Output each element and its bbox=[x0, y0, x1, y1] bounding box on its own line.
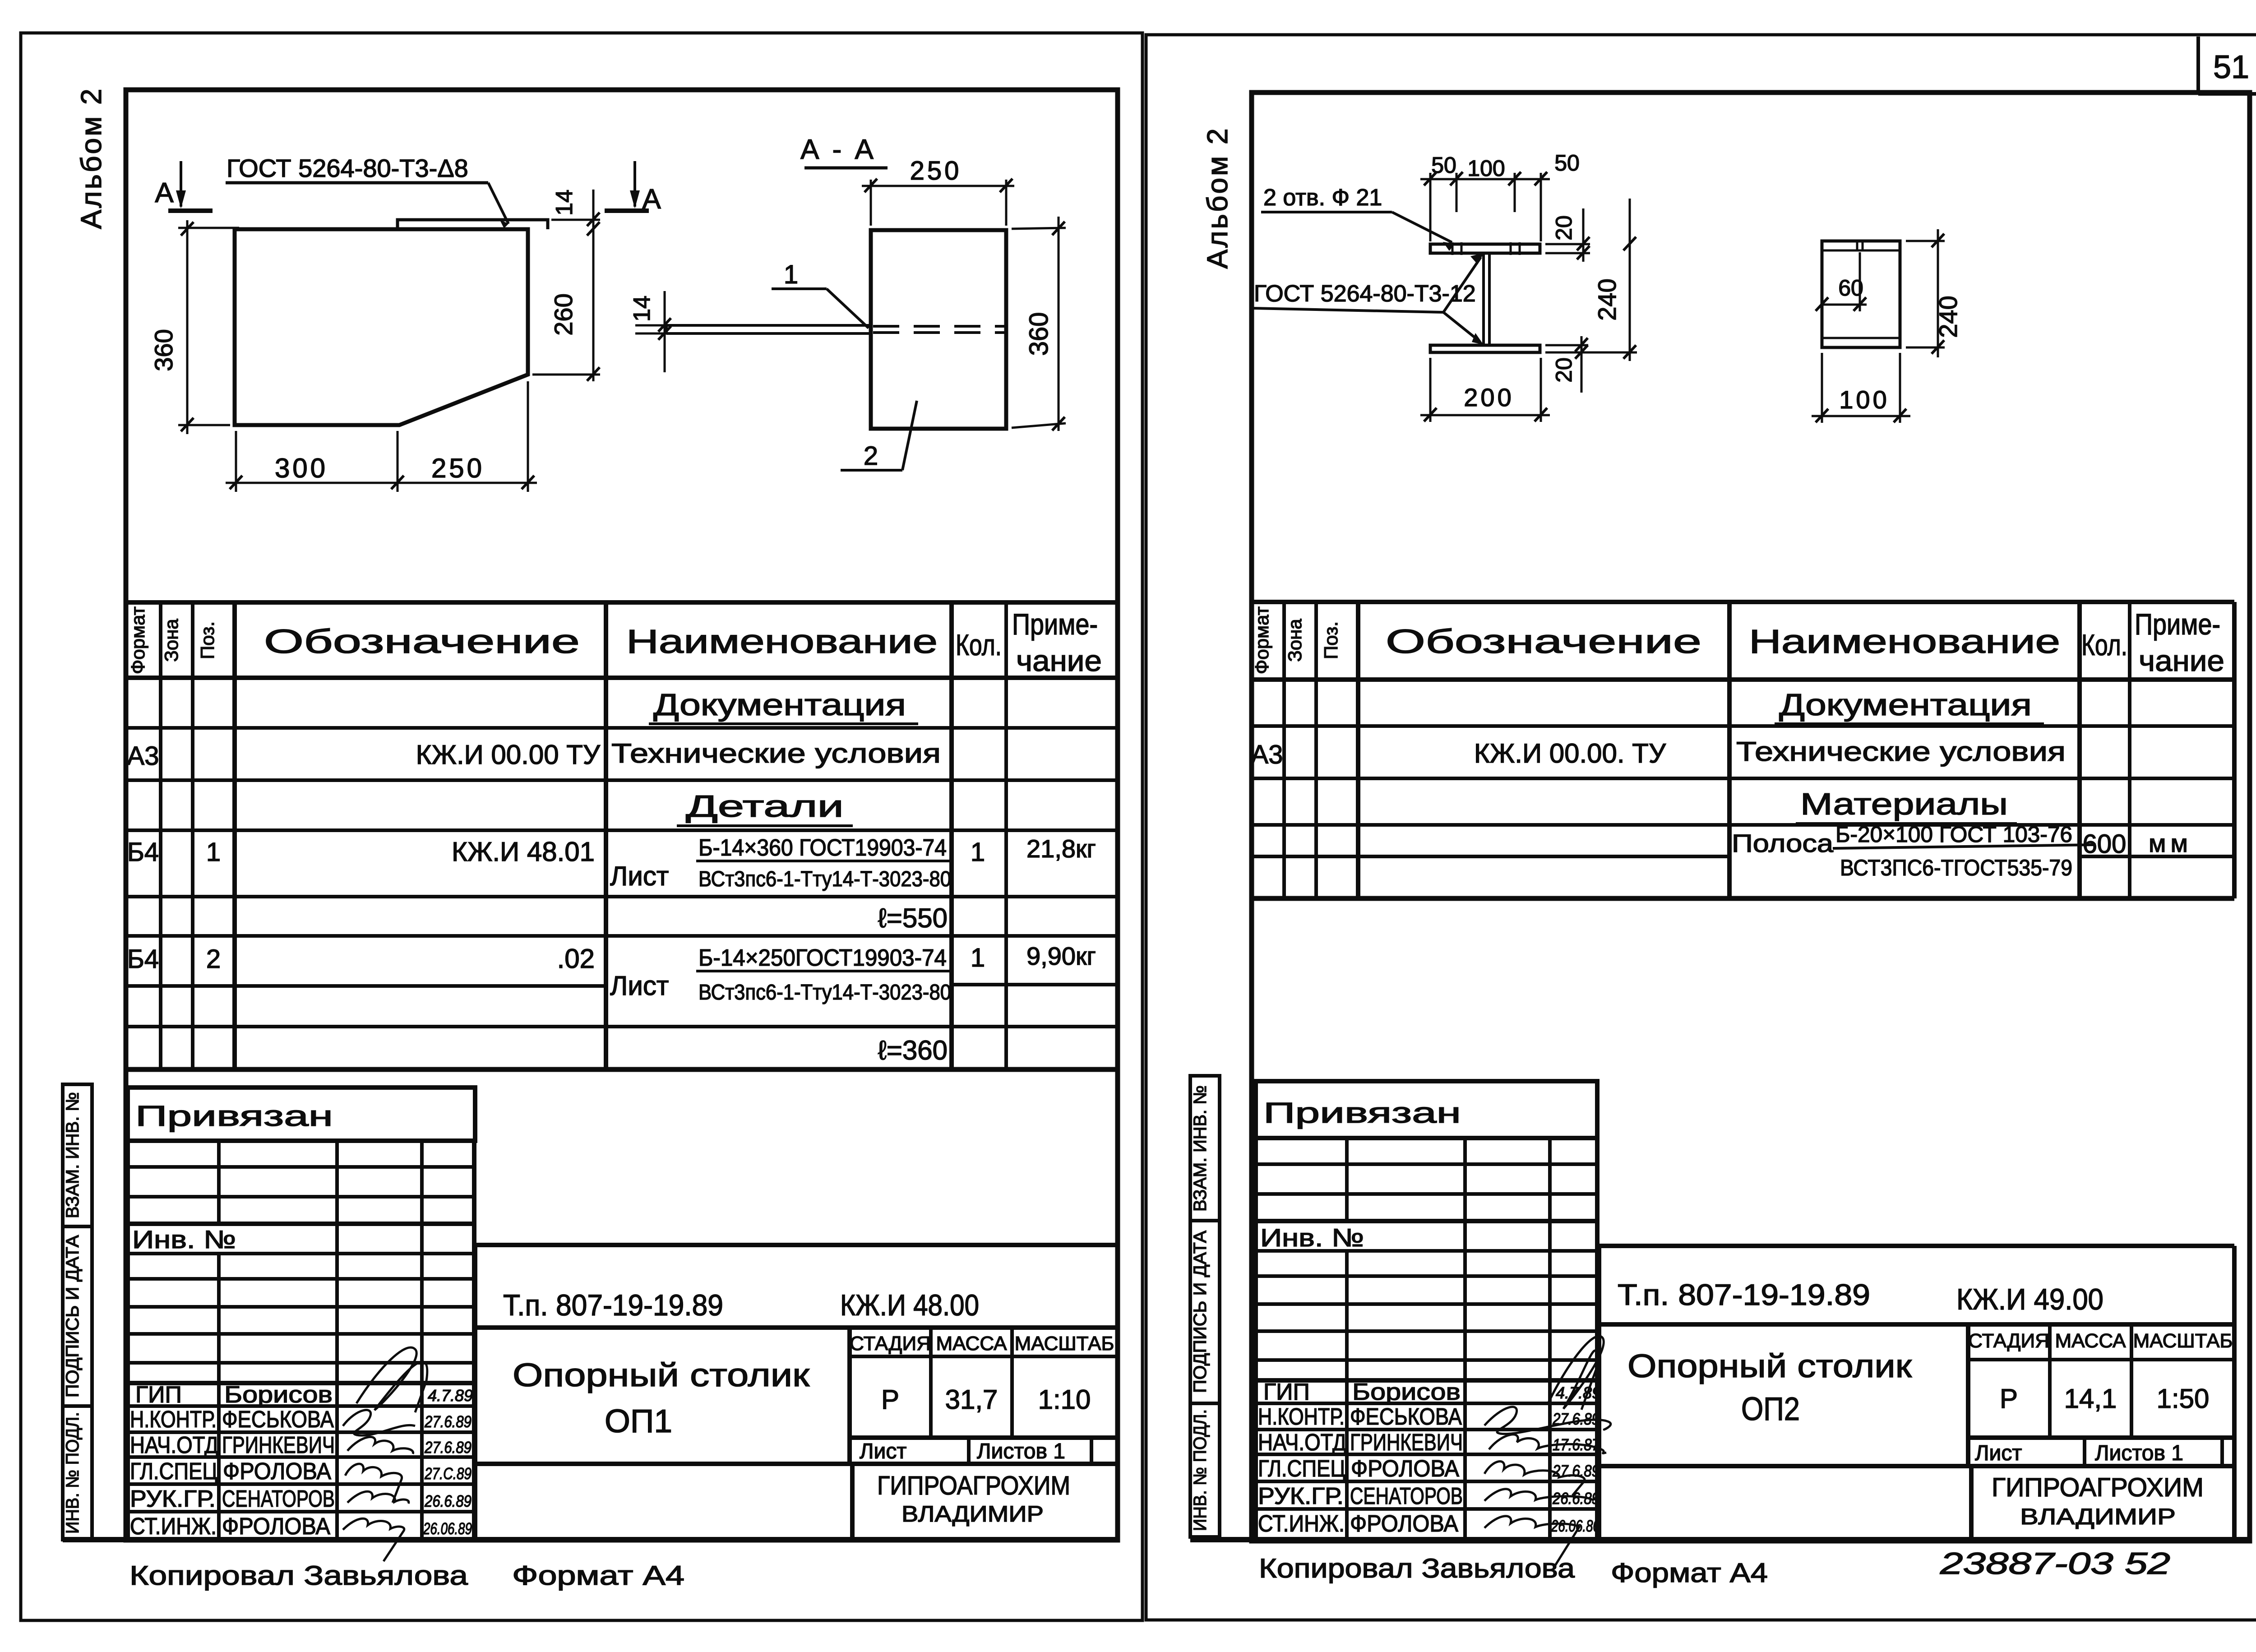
svg-text:100: 100 bbox=[1467, 156, 1505, 181]
signatures squiggles bbox=[1484, 1336, 1611, 1567]
svg-text:А3: А3 bbox=[1251, 740, 1283, 769]
signature rows bbox=[1258, 1379, 1463, 1537]
svg-text:Формат: Формат bbox=[127, 606, 148, 674]
svg-text:ГРИНКЕВИЧ: ГРИНКЕВИЧ bbox=[1350, 1430, 1463, 1456]
svg-text:Инв. №: Инв. № bbox=[1260, 1223, 1364, 1252]
svg-text:Б4: Б4 bbox=[127, 838, 159, 867]
svg-text:РУК.ГР.: РУК.ГР. bbox=[130, 1486, 216, 1512]
svg-text:мм: мм bbox=[2149, 829, 2192, 857]
dim 240 bbox=[1629, 199, 1631, 361]
dims 300 / 250 bottom bbox=[226, 482, 537, 484]
svg-text:СТАДИЯ: СТАДИЯ bbox=[1968, 1330, 2049, 1352]
svg-text:чание: чание bbox=[2139, 644, 2224, 677]
svg-text:ФЕСЬКОВА: ФЕСЬКОВА bbox=[222, 1407, 334, 1433]
svg-text:31,7: 31,7 bbox=[945, 1384, 998, 1415]
svg-text:КЖ.И 48.00: КЖ.И 48.00 bbox=[840, 1288, 979, 1322]
svg-text:ИНВ. № ПОДЛ.: ИНВ. № ПОДЛ. bbox=[1190, 1409, 1210, 1531]
svg-text:26.06.89: 26.06.89 bbox=[423, 1519, 472, 1538]
signature rows bbox=[130, 1382, 335, 1540]
left page bottom blocks bbox=[63, 1084, 1118, 1591]
svg-text:МАСШТАБ: МАСШТАБ bbox=[1015, 1333, 1114, 1355]
svg-text:Обозначение: Обозначение bbox=[1386, 623, 1701, 660]
dim 260 and 14 right of body bbox=[592, 190, 595, 381]
svg-text:ОП1: ОП1 bbox=[605, 1403, 672, 1439]
svg-text:ℓ=360: ℓ=360 bbox=[878, 1035, 948, 1065]
svg-text:Зона: Зона bbox=[161, 619, 182, 662]
svg-text:ИНВ. № ПОДЛ.: ИНВ. № ПОДЛ. bbox=[63, 1412, 83, 1534]
svg-text:50: 50 bbox=[1554, 150, 1580, 176]
svg-text:ГОСТ 5264-80-Т3-Δ8: ГОСТ 5264-80-Т3-Δ8 bbox=[227, 154, 468, 182]
svg-text:СТ.ИНЖ.: СТ.ИНЖ. bbox=[1258, 1511, 1345, 1537]
right page bottom blocks bbox=[1190, 1076, 2250, 1588]
dim 100 bbox=[1812, 415, 1910, 417]
svg-text:ВЛАДИМИР: ВЛАДИМИР bbox=[2020, 1504, 2176, 1529]
svg-text:Поз.: Поз. bbox=[197, 621, 218, 659]
bolt hole marks on top flange bbox=[1452, 242, 1454, 255]
bottom flange bbox=[1430, 345, 1540, 352]
svg-text:СТ.ИНЖ.: СТ.ИНЖ. bbox=[130, 1513, 217, 1540]
svg-text:Борисов: Борисов bbox=[224, 1382, 333, 1408]
svg-text:Привязан: Привязан bbox=[135, 1100, 333, 1132]
svg-text:1: 1 bbox=[971, 838, 985, 867]
svg-text:ВСТ3ПС6-ТГОСТ535-79: ВСТ3ПС6-ТГОСТ535-79 bbox=[1840, 855, 2072, 880]
table grid bbox=[126, 602, 1117, 1069]
svg-text:Приме-: Приме- bbox=[1012, 607, 1098, 641]
svg-text:27.С.89: 27.С.89 bbox=[424, 1464, 472, 1483]
svg-text:50: 50 bbox=[1431, 153, 1456, 178]
svg-text:.02: .02 bbox=[557, 944, 595, 974]
svg-text:2: 2 bbox=[206, 944, 221, 974]
web double line bbox=[1482, 253, 1485, 345]
privyazan box and grid bbox=[1256, 1081, 1597, 1537]
svg-text:1:10: 1:10 bbox=[1038, 1384, 1091, 1415]
svg-text:ФРОЛОВА: ФРОЛОВА bbox=[223, 1458, 331, 1485]
svg-text:27.6.89: 27.6.89 bbox=[424, 1438, 472, 1457]
svg-text:4.7.89: 4.7.89 bbox=[1556, 1384, 1601, 1402]
svg-text:Лист: Лист bbox=[1975, 1441, 2022, 1465]
svg-text:4.7.89: 4.7.89 bbox=[428, 1386, 473, 1405]
svg-text:260: 260 bbox=[549, 293, 578, 335]
svg-text:Полоса: Полоса bbox=[1732, 829, 1834, 857]
svg-text:МАССА: МАССА bbox=[936, 1333, 1008, 1355]
side bar boxes bbox=[63, 1084, 92, 1540]
dim 20 bottom bbox=[1581, 336, 1583, 393]
right page drawing views bbox=[1252, 150, 1962, 423]
right page spec table bbox=[1251, 602, 2234, 898]
svg-text:1: 1 bbox=[971, 943, 985, 972]
svg-text:23887-03 52: 23887-03 52 bbox=[1940, 1546, 2170, 1581]
svg-text:Формат: Формат bbox=[1251, 606, 1272, 674]
page number 51 box bbox=[2196, 37, 2200, 94]
svg-text:Кол.: Кол. bbox=[956, 628, 1002, 662]
svg-text:Лист: Лист bbox=[610, 971, 669, 1001]
svg-text:ГЛ.СПЕЦ: ГЛ.СПЕЦ bbox=[130, 1458, 217, 1485]
title block bbox=[1190, 1246, 2250, 1540]
svg-text:250: 250 bbox=[910, 156, 962, 185]
svg-text:Листов 1: Листов 1 bbox=[2095, 1441, 2183, 1465]
svg-text:ГИПРОАГРОХИМ: ГИПРОАГРОХИМ bbox=[1992, 1473, 2204, 1502]
outer border left page bbox=[21, 33, 1142, 1620]
svg-text:14: 14 bbox=[551, 190, 578, 216]
dim 240 right bbox=[1937, 229, 1939, 357]
top plate detail bbox=[398, 220, 548, 229]
svg-text:Листов 1: Листов 1 bbox=[977, 1439, 1065, 1463]
svg-text:ГИП: ГИП bbox=[135, 1382, 182, 1408]
svg-text:60: 60 bbox=[1838, 275, 1863, 301]
svg-text:Наименование: Наименование bbox=[1749, 623, 2060, 660]
svg-text:300: 300 bbox=[275, 453, 328, 483]
svg-text:КЖ.И 48.01: КЖ.И 48.01 bbox=[452, 837, 595, 867]
svg-text:14: 14 bbox=[629, 296, 655, 322]
svg-text:Формат А4: Формат А4 bbox=[1611, 1558, 1768, 1588]
svg-text:Копировал Завьялова: Копировал Завьялова bbox=[1259, 1553, 1575, 1583]
dim 250 top of A-A bbox=[862, 185, 1014, 187]
svg-text:КЖ.И 49.00: КЖ.И 49.00 bbox=[1956, 1282, 2103, 1316]
svg-text:СЕНАТОРОВ: СЕНАТОРОВ bbox=[222, 1486, 335, 1512]
dim 360 left bbox=[186, 220, 189, 434]
svg-text:ГЛ.СПЕЦ: ГЛ.СПЕЦ bbox=[1258, 1456, 1345, 1482]
svg-text:ВЗАМ. ИНВ. №: ВЗАМ. ИНВ. № bbox=[1190, 1085, 1210, 1212]
svg-text:240: 240 bbox=[1934, 296, 1962, 338]
svg-text:27.6.89: 27.6.89 bbox=[424, 1412, 472, 1431]
svg-text:ВЗАМ. ИНВ. №: ВЗАМ. ИНВ. № bbox=[63, 1092, 83, 1218]
svg-text:ВСт3пс6-1-Тту14-Т-3023-80: ВСт3пс6-1-Тту14-Т-3023-80 bbox=[698, 867, 951, 891]
svg-text:ВСт3пс6-1-Тту14-Т-3023-80: ВСт3пс6-1-Тту14-Т-3023-80 bbox=[698, 981, 951, 1004]
svg-text:ПОДПИСЬ И ДАТА: ПОДПИСЬ И ДАТА bbox=[1190, 1231, 1210, 1393]
svg-text:Р: Р bbox=[2000, 1384, 2018, 1414]
svg-text:600: 600 bbox=[2083, 829, 2127, 859]
svg-text:ГИПРОАГРОХИМ: ГИПРОАГРОХИМ bbox=[877, 1471, 1070, 1500]
svg-text:МАССА: МАССА bbox=[2055, 1330, 2127, 1352]
svg-text:ℓ=550: ℓ=550 bbox=[878, 903, 948, 933]
svg-text:КЖ.И 00.00. ТУ: КЖ.И 00.00. ТУ bbox=[1474, 738, 1666, 768]
svg-text:НАЧ.ОТД: НАЧ.ОТД bbox=[1258, 1430, 1346, 1456]
svg-text:чание: чание bbox=[1016, 644, 1102, 677]
svg-text:РУК.ГР.: РУК.ГР. bbox=[1258, 1483, 1344, 1509]
svg-text:Приме-: Приме- bbox=[2135, 607, 2220, 641]
svg-text:Т.п. 807-19-19.89: Т.п. 807-19-19.89 bbox=[1618, 1278, 1870, 1311]
dim 60 bbox=[1859, 252, 1861, 311]
svg-text:Борисов: Борисов bbox=[1352, 1379, 1461, 1405]
svg-text:А: А bbox=[155, 177, 174, 208]
left page spec table bbox=[126, 602, 1117, 1069]
inner drawing frame left page bbox=[75, 87, 1118, 1541]
svg-text:240: 240 bbox=[1593, 278, 1621, 320]
svg-text:МАСШТАБ: МАСШТАБ bbox=[2133, 1330, 2233, 1352]
svg-text:НАЧ.ОТД: НАЧ.ОТД bbox=[130, 1432, 218, 1458]
svg-text:1:50: 1:50 bbox=[2157, 1384, 2210, 1414]
svg-text:20: 20 bbox=[1551, 215, 1576, 241]
svg-text:ГОСТ 5264-80-Т3-12: ГОСТ 5264-80-Т3-12 bbox=[1254, 281, 1476, 307]
plan view plate bbox=[1822, 241, 1900, 347]
svg-text:ВЛАДИМИР: ВЛАДИМИР bbox=[901, 1501, 1044, 1527]
svg-text:360: 360 bbox=[149, 329, 178, 371]
privyazan box and grid bbox=[128, 1087, 475, 1540]
svg-text:20: 20 bbox=[1551, 357, 1576, 383]
svg-text:2 отв. Ф 21: 2 отв. Ф 21 bbox=[1263, 185, 1382, 211]
svg-text:Н.КОНТР.: Н.КОНТР. bbox=[130, 1407, 217, 1433]
svg-text:Технические условия: Технические условия bbox=[1736, 736, 2066, 767]
svg-text:21,8кг: 21,8кг bbox=[1026, 834, 1096, 863]
left page drawing views bbox=[149, 134, 1066, 492]
svg-text:Технические условия: Технические условия bbox=[611, 738, 941, 768]
svg-text:250: 250 bbox=[431, 453, 485, 483]
side bar boxes bbox=[1190, 1076, 1220, 1537]
svg-text:ФЕСЬКОВА: ФЕСЬКОВА bbox=[1350, 1404, 1462, 1430]
svg-text:ФРОЛОВА: ФРОЛОВА bbox=[222, 1513, 330, 1540]
svg-text:200: 200 bbox=[1464, 383, 1514, 412]
svg-text:Детали: Детали bbox=[686, 789, 844, 824]
svg-text:Обозначение: Обозначение bbox=[264, 623, 580, 660]
svg-text:А - А: А - А bbox=[800, 134, 876, 165]
inner drawing frame right page bbox=[1201, 93, 2250, 1541]
dim 360 right of A-A bbox=[1058, 217, 1060, 431]
svg-text:Б-20×100 ГОСТ 103-76: Б-20×100 ГОСТ 103-76 bbox=[1835, 822, 2072, 847]
svg-text:Формат А4: Формат А4 bbox=[512, 1560, 684, 1591]
svg-text:Привязан: Привязан bbox=[1263, 1097, 1461, 1129]
svg-text:Т.п. 807-19-19.89: Т.п. 807-19-19.89 bbox=[503, 1288, 723, 1322]
I-beam section: top flange bbox=[1430, 244, 1540, 253]
dims 50 100 50 bbox=[1420, 178, 1550, 180]
svg-text:26.6.89: 26.6.89 bbox=[424, 1492, 472, 1510]
svg-text:Кол.: Кол. bbox=[2081, 628, 2127, 662]
svg-text:СЕНАТОРОВ: СЕНАТОРОВ bbox=[1350, 1483, 1463, 1509]
svg-text:1: 1 bbox=[784, 260, 798, 289]
svg-text:Альбом 2: Альбом 2 bbox=[1201, 127, 1234, 269]
main body ОП1 side view bbox=[235, 229, 528, 425]
svg-text:9,90кг: 9,90кг bbox=[1026, 942, 1096, 970]
svg-text:Н.КОНТР.: Н.КОНТР. bbox=[1258, 1404, 1345, 1430]
svg-text:ГРИНКЕВИЧ: ГРИНКЕВИЧ bbox=[222, 1432, 335, 1458]
signatures squiggles bbox=[343, 1347, 427, 1561]
outer border right page bbox=[1146, 35, 2256, 1620]
svg-text:Р: Р bbox=[881, 1384, 899, 1415]
title block bbox=[63, 1245, 1118, 1540]
svg-text:Документация: Документация bbox=[653, 688, 906, 722]
svg-text:14,1: 14,1 bbox=[2064, 1384, 2117, 1414]
dim 200 bbox=[1420, 414, 1550, 416]
svg-text:51: 51 bbox=[2213, 49, 2249, 85]
svg-text:Опорный столик: Опорный столик bbox=[513, 1357, 810, 1393]
svg-text:ОП2: ОП2 bbox=[1741, 1391, 1800, 1427]
plate detail 1 in section bbox=[666, 325, 871, 333]
dim 20 top bbox=[1582, 208, 1585, 262]
A-A square plate detail 2 bbox=[871, 230, 1006, 429]
svg-text:Б-14×360 ГОСТ19903-74: Б-14×360 ГОСТ19903-74 bbox=[698, 835, 947, 861]
svg-text:Лист: Лист bbox=[860, 1439, 906, 1463]
svg-text:Инв. №: Инв. № bbox=[132, 1225, 236, 1254]
svg-text:360: 360 bbox=[1024, 312, 1054, 356]
svg-text:2: 2 bbox=[864, 441, 878, 471]
svg-text:Лист: Лист bbox=[610, 861, 669, 891]
svg-text:Материалы: Материалы bbox=[1800, 787, 2008, 821]
svg-text:Опорный столик: Опорный столик bbox=[1627, 1348, 1912, 1384]
svg-text:ГИП: ГИП bbox=[1263, 1379, 1310, 1405]
svg-text:Поз.: Поз. bbox=[1320, 621, 1341, 659]
svg-text:Альбом 2: Альбом 2 bbox=[75, 87, 107, 229]
svg-text:КЖ.И 00.00 ТУ: КЖ.И 00.00 ТУ bbox=[416, 740, 601, 770]
svg-text:Копировал Завьялова: Копировал Завьялова bbox=[129, 1560, 468, 1591]
dim 14 of plate bbox=[664, 291, 666, 372]
svg-text:ФРОЛОВА: ФРОЛОВА bbox=[1351, 1456, 1459, 1482]
svg-text:Б-14×250ГОСТ19903-74: Б-14×250ГОСТ19903-74 bbox=[698, 945, 947, 971]
svg-text:Зона: Зона bbox=[1284, 619, 1305, 662]
svg-text:СТАДИЯ: СТАДИЯ bbox=[850, 1333, 931, 1355]
svg-text:100: 100 bbox=[1839, 385, 1889, 414]
svg-text:А3: А3 bbox=[127, 741, 159, 771]
svg-text:Наименование: Наименование bbox=[626, 623, 938, 660]
svg-text:Б4: Б4 bbox=[127, 944, 159, 974]
svg-text:Документация: Документация bbox=[1779, 688, 2032, 722]
svg-text:ПОДПИСЬ И ДАТА: ПОДПИСЬ И ДАТА bbox=[63, 1235, 83, 1397]
svg-text:ФРОЛОВА: ФРОЛОВА bbox=[1350, 1511, 1458, 1537]
svg-text:1: 1 bbox=[206, 838, 221, 867]
